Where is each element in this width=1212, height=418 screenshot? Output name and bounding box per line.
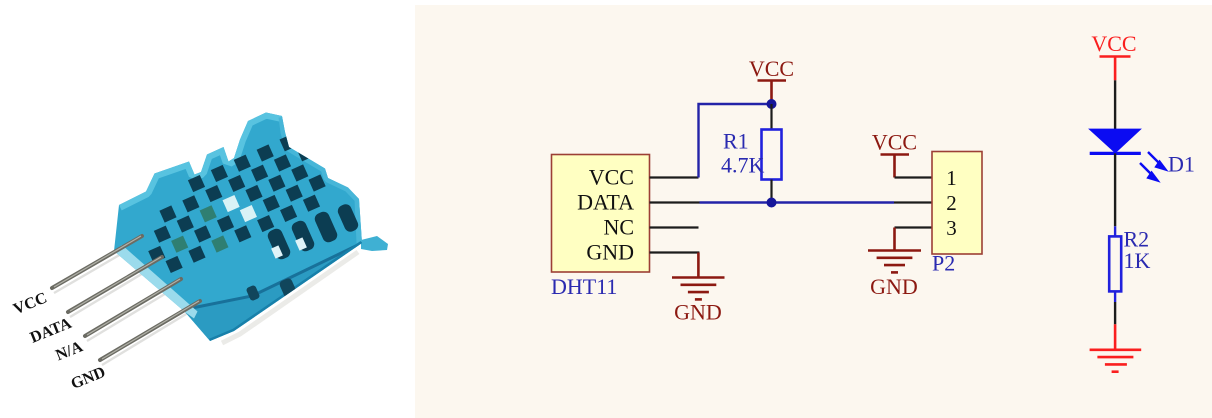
junction dot (VCC/R1) [767, 99, 777, 109]
wire DHT11 NC pin stub [650, 226, 699, 228]
sensor pins [52, 236, 200, 360]
svg-text:N/A: N/A [53, 338, 85, 364]
base plate light strip [114, 245, 198, 319]
power symbol VCC (LED) [1100, 57, 1131, 81]
svg-text:GND: GND [870, 274, 918, 299]
bottom internal edge [182, 243, 362, 310]
wire DHT11 VCC pin stub [650, 176, 699, 178]
vent slots bottom right [266, 202, 360, 261]
power symbol VCC (R1 top) [758, 81, 787, 101]
bottom band slots [246, 277, 298, 301]
wire DATA net (blue) [700, 201, 895, 203]
svg-text:VCC: VCC [11, 289, 50, 318]
teeth highlight band [119, 113, 282, 206]
drop shadow under body [222, 252, 358, 343]
wire DHT11 GND pin stub [650, 251, 700, 253]
wire VCC to LED [1114, 80, 1116, 129]
LED arrows [1140, 152, 1166, 181]
ground symbol GND (P2) [868, 228, 921, 273]
pin shadows [54, 243, 196, 365]
svg-text:P2: P2 [932, 251, 955, 276]
wire R1 top lead [770, 104, 772, 130]
white windows [223, 195, 257, 222]
wire blue elbow VCC net [699, 104, 772, 178]
svg-text:VCC: VCC [749, 56, 794, 81]
diode D1 (LED) [1088, 129, 1142, 154]
teal holes [171, 205, 228, 253]
wire P2 pin2 stub [894, 201, 932, 203]
junction dot (DATA/R1) [767, 198, 777, 208]
schematic background [415, 5, 1212, 418]
ground symbol GND (LED, red) [1090, 324, 1142, 371]
wire R1 bottom lead [770, 180, 772, 203]
wire P2 pin1 stub [895, 176, 933, 178]
resistor R1 [762, 130, 782, 180]
svg-text:GND: GND [586, 240, 634, 265]
power symbol VCC (P2) [881, 155, 910, 178]
svg-text:NC: NC [603, 215, 634, 240]
wire R2 bottom lead (blue) [1114, 291, 1116, 302]
bottom outer shadow edge [210, 243, 362, 341]
bottom face band [182, 243, 362, 341]
pin labels [11, 289, 108, 392]
ground symbol GND (DHT11) [672, 253, 725, 300]
svg-text:1: 1 [946, 166, 957, 190]
svg-text:4.7K: 4.7K [721, 153, 765, 178]
svg-text:VCC: VCC [589, 165, 634, 190]
holes grid on front face [148, 134, 360, 301]
wire P2 pin3 stub [895, 226, 933, 228]
svg-text:D1: D1 [1168, 152, 1195, 177]
right staircase highlight [283, 117, 361, 243]
svg-text:GND: GND [674, 300, 722, 325]
mounting tab right [361, 236, 388, 251]
svg-text:VCC: VCC [872, 130, 917, 155]
svg-text:DATA: DATA [577, 190, 634, 215]
sensor body silhouette [114, 113, 362, 342]
svg-text:DHT11: DHT11 [551, 274, 617, 299]
wire R2 to GND [1114, 302, 1116, 324]
wire LED to R2 [1114, 153, 1116, 226]
svg-text:2: 2 [946, 191, 957, 215]
wire R2 top lead (blue) [1114, 226, 1116, 236]
svg-text:VCC: VCC [1091, 31, 1136, 56]
svg-text:3: 3 [946, 216, 957, 240]
svg-text:R1: R1 [723, 129, 749, 154]
resistor R2 [1109, 236, 1121, 291]
svg-text:1K: 1K [1124, 248, 1151, 273]
connector P2 box [932, 152, 982, 255]
wire DHT11 DATA pin stub [650, 201, 700, 203]
component DHT11 box [552, 155, 650, 273]
svg-text:GND: GND [69, 364, 108, 393]
